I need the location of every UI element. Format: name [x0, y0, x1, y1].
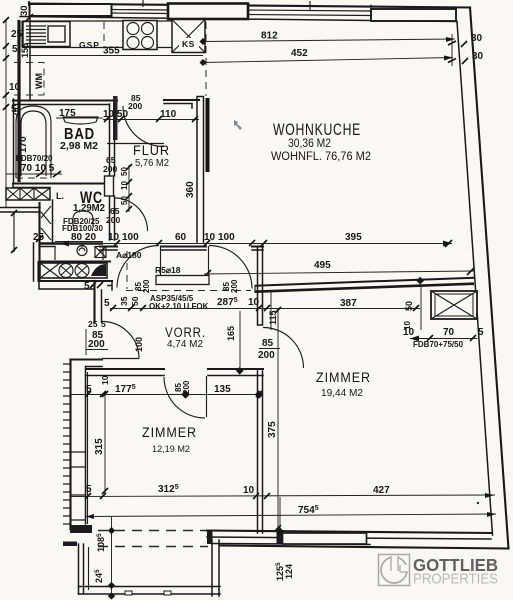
dimension line 355: [29, 55, 203, 57]
vertical dim line at balcony: [111, 517, 113, 596]
svg-text:155: 155: [20, 43, 30, 58]
dimension line 452: [203, 58, 453, 63]
svg-text:355: 355: [103, 46, 120, 57]
svg-text:200: 200: [142, 279, 151, 293]
svg-text:FDB70/20: FDB70/20: [16, 154, 53, 163]
svg-text:KS: KS: [182, 39, 195, 49]
stove burner 1: [127, 23, 139, 35]
WC bottom wall: [40, 242, 103, 244]
left dimension chain line: [5, 20, 7, 207]
wall top band mid lines segment A: [112, 10, 168, 14]
svg-text:200: 200: [258, 350, 275, 361]
svg-text:135: 135: [214, 384, 231, 395]
svg-text:452: 452: [291, 48, 308, 59]
dimension line 812: [203, 39, 455, 42]
bottom wall right of balcony door: [207, 531, 491, 534]
svg-text:495: 495: [314, 260, 331, 271]
window W1 top-left: [30, 4, 112, 16]
wall stub left of balcony: [63, 542, 77, 547]
svg-text:30: 30: [472, 51, 484, 62]
svg-text:WM: WM: [34, 73, 44, 89]
svg-text:387: 387: [340, 298, 357, 309]
entrance door arc: [102, 322, 139, 359]
svg-text:170: 170: [18, 136, 29, 153]
divider wall between rooms: [258, 371, 263, 533]
outer bottom wall: [220, 546, 507, 549]
svg-text:10: 10: [243, 485, 255, 496]
west wall hatch ticks: [63, 364, 70, 524]
svg-text:50: 50: [120, 196, 129, 205]
neighbour wall cut left: [0, 208, 40, 213]
dim line ASP row: [110, 308, 263, 310]
bathtub: [16, 106, 51, 178]
svg-text:70 10 5: 70 10 5: [21, 163, 55, 174]
tick top-left: [26, 1, 33, 21]
svg-text:WOHNKUCHE: WOHNKUCHE: [273, 120, 361, 139]
svg-text:30,36 M2: 30,36 M2: [288, 138, 331, 150]
svg-text:50: 50: [404, 301, 414, 311]
right wall outer slanted: [470, 8, 509, 549]
svg-text:A⌀180: A⌀180: [116, 250, 142, 260]
svg-text:315: 315: [94, 438, 105, 455]
scan smudge artifact: [234, 120, 242, 130]
svg-text:812: 812: [261, 31, 278, 42]
BAD-FLUR divider wall: [110, 104, 115, 240]
shaft row below WC wall top: [40, 260, 110, 262]
balcony door dashed lines: [98, 530, 208, 532]
dimension line 175: [56, 117, 103, 119]
svg-text:19,44 M2: 19,44 M2: [321, 388, 363, 399]
left ZIMMER top wall: [71, 358, 103, 360]
svg-text:115: 115: [268, 310, 278, 325]
window W3 top-right: [371, 9, 456, 21]
svg-text:100: 100: [122, 232, 139, 243]
svg-text:R5⌀18: R5⌀18: [155, 265, 181, 275]
svg-text:10: 10: [100, 375, 110, 385]
svg-text:30: 30: [471, 33, 483, 44]
window W2 top-middle: [168, 4, 248, 20]
svg-text:4,74 M2: 4,74 M2: [167, 339, 203, 350]
svg-text:200: 200: [103, 164, 117, 174]
svg-text:25: 25: [88, 319, 98, 329]
FLUR entry door arc: [123, 106, 164, 147]
logo square: [379, 555, 410, 586]
dark door leaf bar: [206, 98, 210, 172]
dim line 70-10-5: [6, 173, 62, 175]
divider wall FLUR-WOHNKUCHE: [197, 97, 204, 243]
dimension line 395: [60, 243, 452, 245]
entrance west wall: [93, 281, 95, 322]
svg-text:VORR.: VORR.: [165, 325, 206, 340]
stove outline: [123, 21, 157, 50]
svg-text:124: 124: [284, 564, 294, 579]
right dim ticks vertical: [451, 34, 453, 66]
svg-text:5: 5: [101, 319, 106, 329]
svg-text:360: 360: [185, 181, 196, 198]
svg-text:60: 60: [175, 232, 187, 243]
svg-text:10: 10: [108, 232, 120, 243]
svg-text:85: 85: [262, 338, 274, 349]
door VORR-ZIMMER1 arc: [164, 377, 205, 418]
svg-text:50: 50: [120, 167, 129, 176]
fridge KS box with X: [172, 20, 205, 53]
svg-text:200: 200: [88, 339, 105, 350]
shaft boxes with fans: [40, 263, 107, 278]
svg-text:375: 375: [267, 421, 278, 438]
svg-text:10: 10: [403, 327, 415, 338]
svg-text:2,98 M2: 2,98 M2: [60, 140, 98, 152]
stove burner 2: [142, 23, 154, 35]
dim line 387: [263, 308, 420, 310]
left ZIMMER bottom wall corner: [70, 525, 92, 533]
svg-text:100: 100: [218, 232, 235, 243]
svg-text:5: 5: [104, 298, 110, 309]
wall top band mid lines segment B: [248, 10, 371, 16]
svg-text:10: 10: [204, 232, 216, 243]
WC door arc: [115, 198, 148, 231]
shaft box right with X: [431, 291, 477, 319]
vertical dim 375: [277, 310, 279, 531]
washbasin BAD: [63, 117, 98, 124]
svg-text:ZIMMER: ZIMMER: [316, 370, 371, 385]
dim line 125/124: [279, 497, 281, 531]
svg-text:35: 35: [119, 296, 129, 306]
balcony side wall lines: [79, 544, 84, 594]
svg-text:110: 110: [160, 109, 177, 120]
duct hatch strip: [41, 206, 51, 240]
washing machine WM dashed spot: [14, 63, 44, 96]
left ZIMMER west wall: [69, 360, 71, 530]
svg-text:200: 200: [128, 101, 142, 111]
BAD bottom wall: [13, 182, 103, 184]
WC west wall: [52, 200, 54, 242]
left boundary WC block: [38, 203, 40, 281]
stove burner 3: [127, 37, 139, 49]
VORR bottom wall: [86, 368, 263, 370]
radiator rect: [156, 276, 209, 285]
VORR top wall pieces: [100, 245, 263, 247]
dashed line right of KS: [205, 22, 207, 96]
svg-text:175: 175: [59, 108, 76, 119]
door VORR-ZIMMER2 arc: [263, 328, 304, 369]
left wall inner line: [14, 16, 31, 182]
svg-text:165: 165: [226, 326, 236, 341]
dashed lines under VORR doors: [126, 290, 251, 292]
WC lavatory area sink: [55, 244, 106, 260]
svg-text:427: 427: [373, 485, 390, 496]
dim line 312: [70, 495, 495, 497]
svg-text:200: 200: [106, 215, 120, 225]
vertical dim 315: [104, 394, 106, 494]
svg-text:10: 10: [120, 181, 129, 190]
dashed line near GSP: [103, 22, 105, 47]
svg-text:GSP: GSP: [79, 40, 100, 50]
WOHNKUCHE-ZIMMER thick wall: [255, 278, 474, 286]
balcony railing: [79, 540, 221, 596]
svg-text:5: 5: [12, 44, 18, 55]
left wall outer line: [17, 20, 20, 182]
svg-text:FLUR: FLUR: [133, 143, 170, 158]
west wall joints: [71, 452, 86, 520]
svg-text:5,76 M2: 5,76 M2: [135, 158, 169, 169]
svg-text:10: 10: [9, 82, 21, 93]
BAD top wall: [13, 99, 117, 101]
sink hatch lines: [26, 26, 46, 44]
svg-text:ZIMMER: ZIMMER: [142, 425, 197, 440]
svg-text:OK+2.10 U.FOK: OK+2.10 U.FOK: [149, 302, 209, 311]
svg-text:FDB70+75/50: FDB70+75/50: [413, 340, 464, 349]
dim ticks 80-20: [55, 241, 103, 243]
bottom window block: [207, 531, 367, 545]
dimension line 495: [204, 271, 474, 274]
svg-text:PROPERTIES: PROPERTIES: [413, 572, 498, 588]
svg-text:5: 5: [84, 281, 90, 292]
svg-text:30: 30: [19, 5, 30, 16]
band ticks: [143, 0, 371, 10]
wall top band inner edge: [20, 17, 457, 22]
door V2 arc: [209, 246, 252, 289]
FLUR west door jamb: [105, 176, 114, 196]
VORR-ZIMMER divider upper: [258, 247, 263, 325]
shaft row below BAD: [6, 188, 50, 200]
svg-text:WOHNFL. 76,76 M2: WOHNFL. 76,76 M2: [271, 151, 371, 163]
svg-text:25: 25: [11, 29, 23, 40]
wall top band outer edge: [29, 4, 470, 8]
FLUR top wall right piece: [164, 99, 199, 101]
svg-text:12,19 M2: 12,19 M2: [152, 444, 190, 455]
toilet: [73, 211, 93, 226]
dim line 177/135: [70, 394, 263, 396]
sink basin square: [48, 26, 65, 42]
FLUR north pier: [113, 96, 118, 140]
svg-text:5: 5: [14, 107, 20, 118]
door V1 arc: [117, 246, 159, 288]
shaft bottom wall: [39, 262, 113, 281]
svg-text:70: 70: [443, 327, 455, 338]
dishwasher GSP unit outline: [23, 22, 70, 47]
svg-text:50: 50: [130, 296, 140, 306]
right wall inner slanted: [457, 22, 493, 536]
left dimension chain ticks: [3, 17, 9, 110]
svg-text:L.: L.: [56, 191, 64, 201]
FLUR mid dim line vertical: [128, 165, 130, 212]
svg-text:100: 100: [134, 337, 144, 352]
FLUR top dim line: [103, 119, 199, 121]
svg-text:5: 5: [478, 327, 484, 338]
svg-text:395: 395: [345, 232, 362, 243]
stove burner 4: [142, 37, 154, 49]
svg-text:200: 200: [230, 279, 239, 293]
kitchen counter outline: [22, 21, 205, 48]
